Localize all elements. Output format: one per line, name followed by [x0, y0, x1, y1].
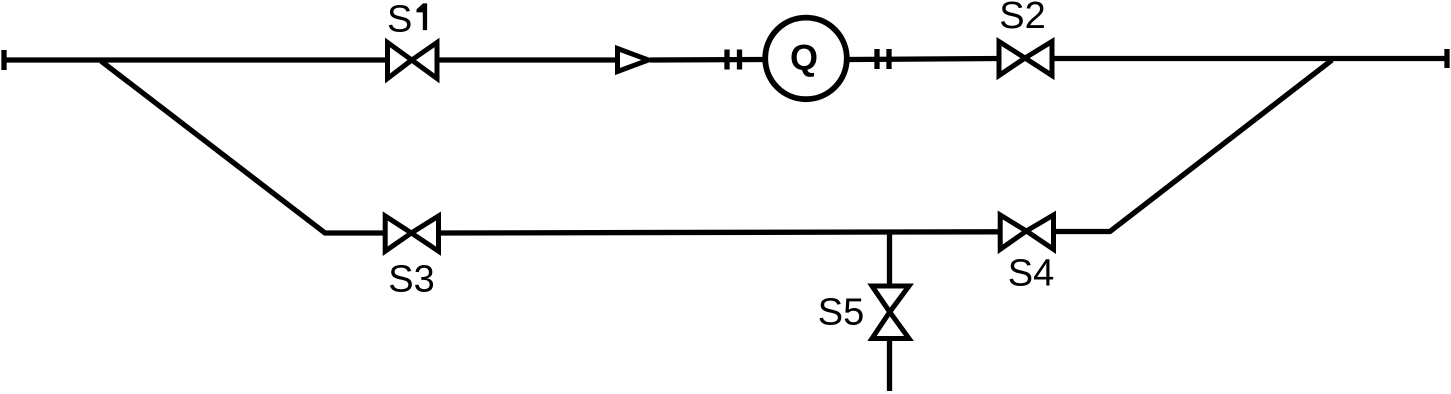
svg-text:S: S	[387, 0, 412, 41]
svg-text:S4: S4	[1008, 253, 1054, 295]
svg-text:S2: S2	[999, 0, 1045, 37]
svg-text:S5: S5	[818, 292, 864, 334]
svg-text:S3: S3	[388, 259, 434, 301]
svg-text:Q: Q	[790, 37, 818, 78]
